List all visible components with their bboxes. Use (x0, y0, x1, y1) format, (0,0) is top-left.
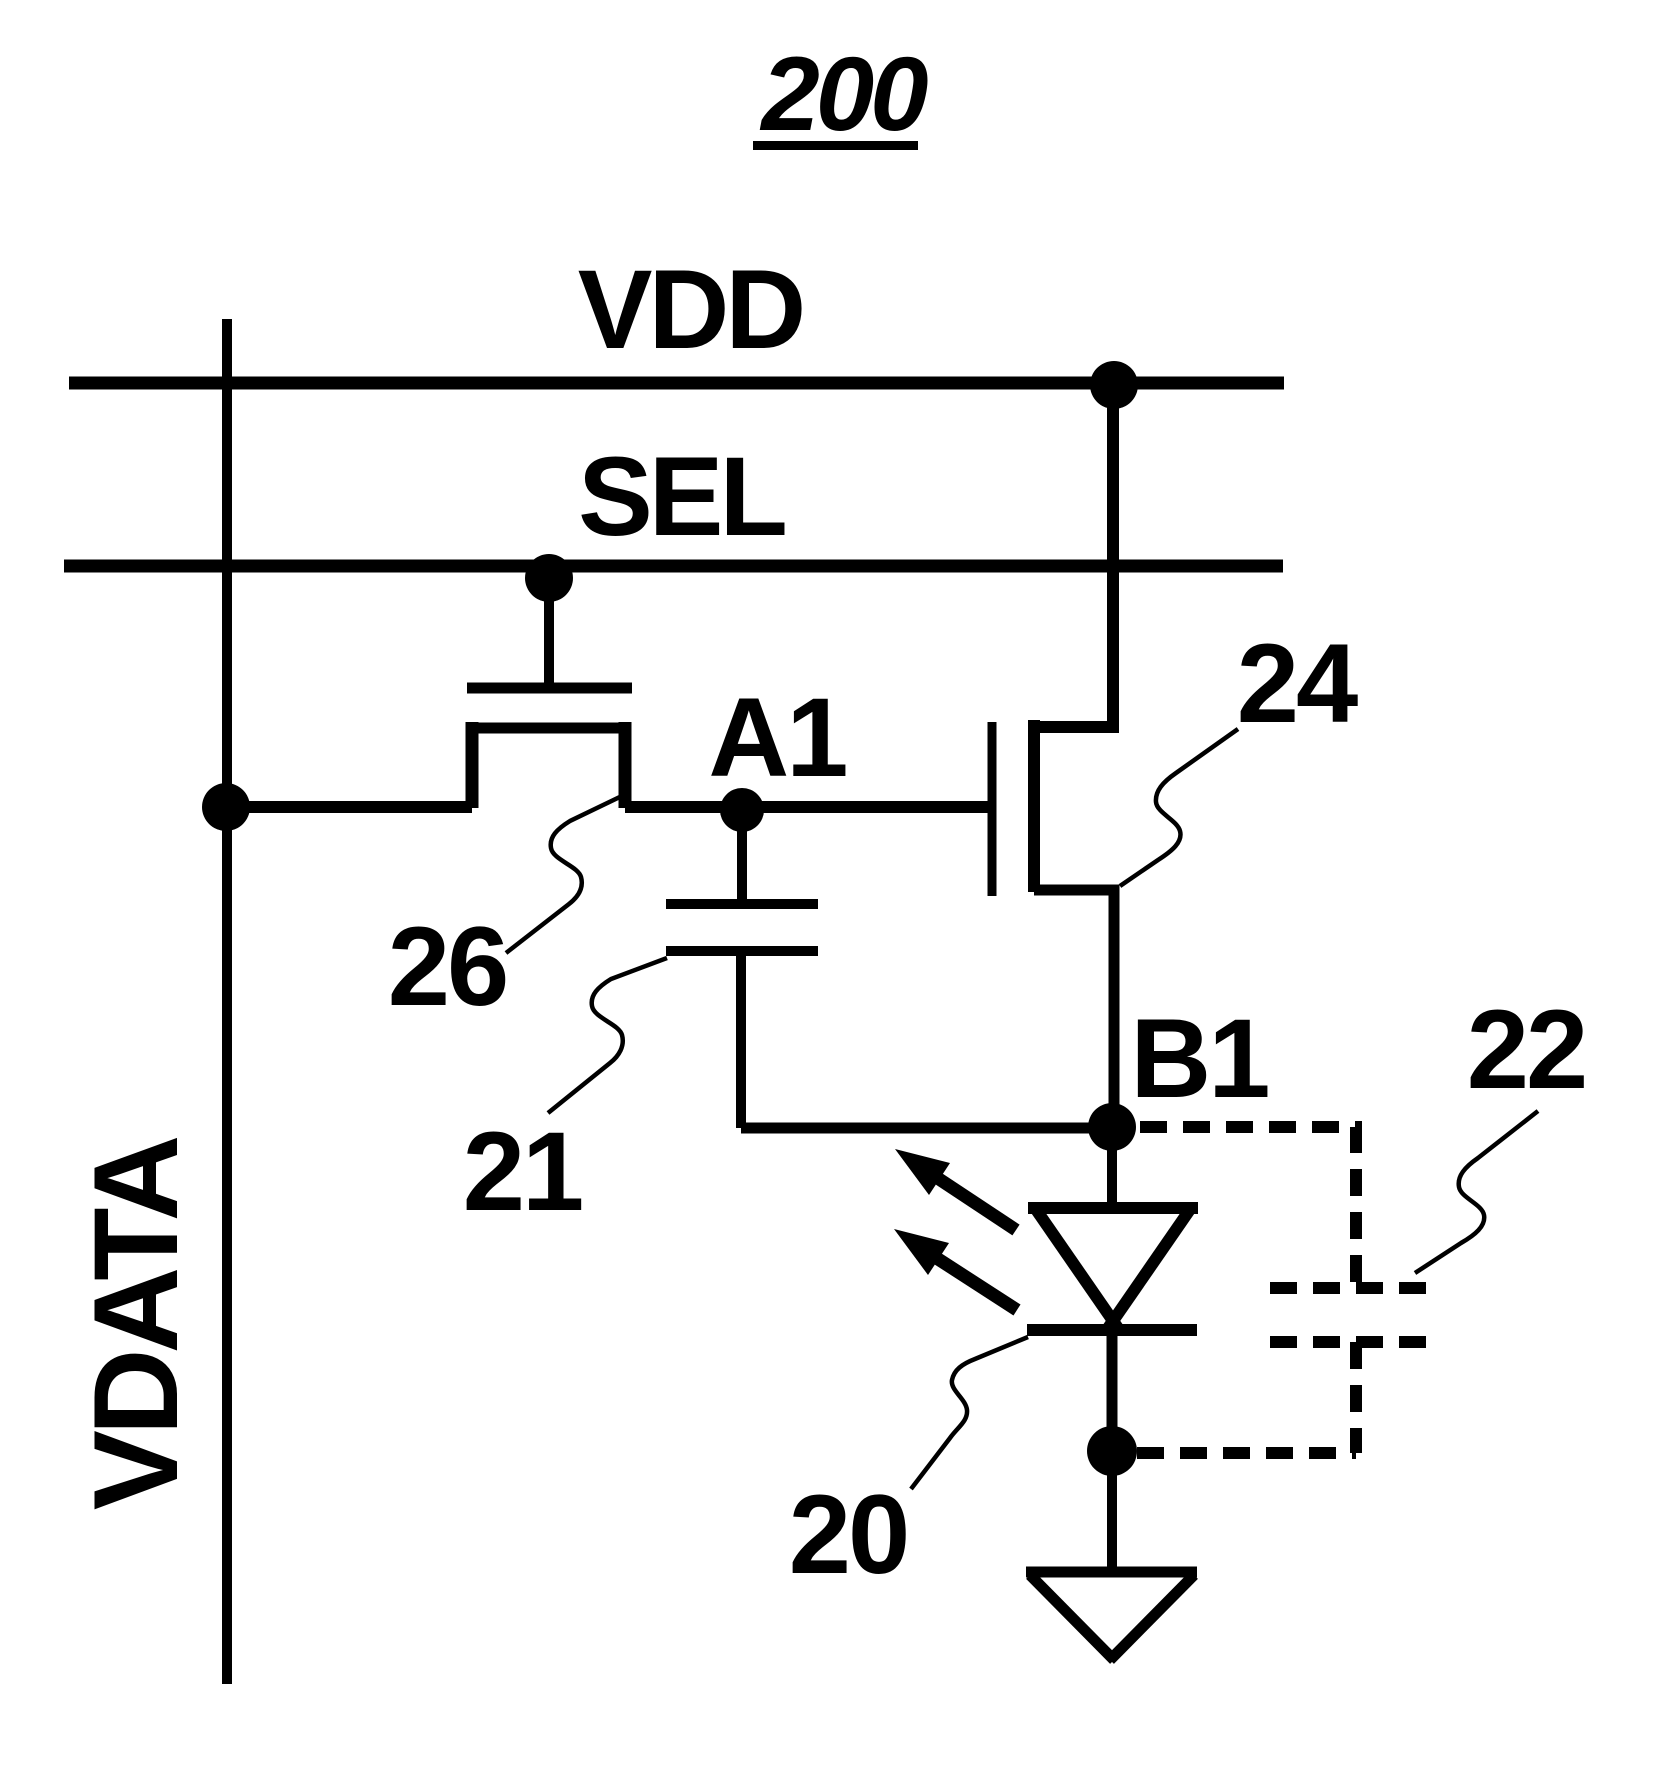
dashed wire cap 22 to cathode node (1350, 1342, 1362, 1453)
leader squiggle 21 (548, 958, 667, 1113)
node VDD junction dot (1090, 361, 1138, 409)
capacitor C21 top plate (666, 899, 818, 909)
node VDATA row junction dot (202, 783, 250, 831)
svg-text:VDD: VDD (578, 247, 803, 372)
svg-text:SEL: SEL (578, 434, 784, 559)
LED D20 triangle left edge (1035, 1208, 1120, 1331)
wire SEL horizontal line (64, 560, 1283, 573)
transistor T26 drain drop (619, 722, 632, 808)
wire ground lead (1107, 1451, 1117, 1572)
transistor T26 channel bar (466, 723, 631, 734)
dashed wire B1 to parasitic cap 22 (1140, 1127, 1356, 1288)
LED emission arrow upper (895, 1149, 1016, 1230)
wire VDD drop to drive transistor drain (1034, 385, 1113, 727)
wire A1 to capacitor (737, 810, 747, 900)
dashed wire bottom horizontal (1137, 1447, 1356, 1459)
wire VDD horizontal line (69, 377, 1284, 390)
ground symbol left edge (1030, 1575, 1114, 1660)
ground symbol top bar (1026, 1567, 1197, 1578)
wire capacitor to node B1 (741, 1123, 1112, 1134)
svg-text:A1: A1 (708, 675, 846, 800)
dashed capacitor 22 top plate (1270, 1282, 1439, 1294)
leader squiggle 20 (911, 1337, 1028, 1489)
svg-text:22: 22 (1467, 987, 1586, 1112)
dashed capacitor 22 bottom plate (1270, 1336, 1442, 1348)
svg-text:20: 20 (789, 1472, 908, 1597)
LED D20 triangle top bar (1028, 1202, 1198, 1214)
wire drive source to B1 (1034, 890, 1114, 1128)
wire select drain to drive gate (625, 801, 988, 813)
transistor T24 gate bar (988, 722, 997, 896)
LED emission arrow lower (894, 1229, 1017, 1310)
svg-text:21: 21 (463, 1109, 582, 1234)
LED D20 cathode bar (1027, 1324, 1197, 1336)
wire LED cathode lead (1107, 1330, 1118, 1451)
leader squiggle 24 (1120, 729, 1238, 886)
node A1 junction dot (720, 788, 764, 832)
svg-text:200: 200 (759, 36, 928, 153)
LED D20 triangle right edge (1106, 1208, 1191, 1331)
wire capacitor bottom lead (736, 951, 746, 1128)
wire VDATA vertical line (222, 319, 232, 1684)
node SEL junction dot (525, 554, 573, 602)
svg-text:26: 26 (388, 904, 507, 1029)
node cathode junction dot (1087, 1426, 1137, 1476)
leader squiggle 26 (506, 794, 626, 953)
wire select gate lead (544, 578, 554, 683)
transistor T24 channel bar (1028, 720, 1040, 892)
leader squiggle 22 (1415, 1111, 1538, 1273)
title underline (753, 141, 918, 150)
transistor T26 source drop (466, 722, 479, 808)
svg-text:24: 24 (1237, 621, 1358, 746)
capacitor C21 bottom plate (666, 946, 818, 956)
svg-text:B1: B1 (1130, 996, 1268, 1121)
wire LED anode lead (1107, 1127, 1117, 1210)
ground symbol right edge (1110, 1575, 1194, 1660)
svg-text:VDATA: VDATA (69, 1137, 203, 1510)
transistor T26 gate bar (467, 683, 632, 694)
wire VDATA to select source (227, 801, 472, 813)
node B1 junction dot (1088, 1103, 1136, 1151)
